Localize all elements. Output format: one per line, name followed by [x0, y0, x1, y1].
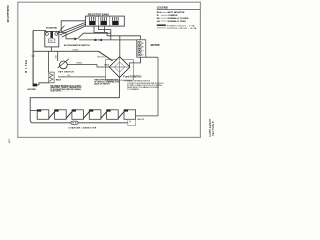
accelerator switch arm 4: [62, 26, 86, 37]
svg-text:RD: RD: [157, 18, 161, 20]
battery B6: [124, 110, 136, 120]
charger connector: [71, 121, 78, 124]
svg-text:CHARGER CONNECTOR: CHARGER CONNECTOR: [68, 126, 96, 129]
svg-text:B 1 TAG: B 1 TAG: [25, 59, 28, 72]
svg-text:1-88: 1-88: [8, 139, 10, 144]
svg-text:MOTOR: MOTOR: [151, 44, 160, 47]
accelerator wiper arrowhead: [74, 37, 77, 40]
accelerator switch arm 3: [60, 24, 86, 35]
svg-text:#16: #16: [67, 75, 70, 77]
wire accelerator to bus: [78, 33, 111, 39]
buzzer: [33, 84, 38, 87]
battery link 5: [118, 111, 125, 119]
svg-text:#18 BLK: #18 BLK: [76, 63, 83, 65]
border frame: [18, 2, 201, 137]
receptacle WD-B box: [49, 72, 54, 83]
svg-text:TO FORWARD.: TO FORWARD.: [127, 88, 140, 91]
wire bus A: [79, 39, 137, 41]
svg-text:MD-3: MD-3: [105, 65, 109, 67]
solenoid aux contact: [48, 39, 55, 43]
motor terminal F1: [138, 49, 141, 52]
svg-text:F2: F2: [142, 54, 144, 56]
svg-text:SOLENOID: SOLENOID: [46, 28, 58, 30]
wire key switch aux to F and R: [58, 76, 106, 78]
svg-text:F and R SWITCH: F and R SWITCH: [123, 76, 141, 78]
resistor R2 terminal: [101, 21, 107, 25]
wire wiper feed: [61, 33, 74, 39]
battery B2: [55, 110, 67, 120]
svg-text:#18: #18: [55, 56, 57, 59]
resistor R1 terminal: [89, 21, 95, 25]
wire motor bottom to diamond: [130, 57, 141, 67]
accelerator switch arm 1: [61, 20, 85, 22]
fuse box below battery: [128, 120, 136, 126]
svg-text:MA-1023: MA-1023: [137, 118, 144, 121]
F and R switch diamond: [109, 57, 130, 78]
wire B+ to solenoid: [33, 31, 47, 33]
svg-text:F1: F1: [142, 51, 144, 53]
svg-text:W: W: [157, 15, 159, 17]
resistor R1 hatches: [90, 17, 96, 21]
resistor bank box: [86, 16, 125, 26]
svg-text:NORMALLY OPEN: NORMALLY OPEN: [168, 20, 187, 23]
resistor R3 terminal: [112, 21, 118, 25]
accelerator switch arm 2: [58, 22, 85, 33]
wire right vertical: [157, 57, 159, 116]
resistor R3 hatches: [113, 17, 119, 21]
svg-text:BATT. NEGATIVE: BATT. NEGATIVE: [168, 11, 185, 14]
svg-text:GR: GR: [157, 21, 161, 23]
battery B4: [89, 110, 101, 120]
svg-text:SECTION B: SECTION B: [211, 121, 215, 136]
legend underline: [157, 8, 200, 10]
wire diamond bottom loop: [30, 77, 128, 122]
wire resistor drop 3: [99, 26, 111, 40]
accelerator switch wiper: [57, 26, 64, 34]
svg-text:(From B+): (From B+): [97, 57, 106, 59]
motor terminal A1: [138, 41, 141, 44]
F and R switch enclosure: [106, 60, 134, 81]
wire resistor drop 2: [104, 26, 106, 32]
svg-text:NORMALLY CLOSED: NORMALLY CLOSED: [168, 17, 189, 20]
solenoid box: [45, 31, 59, 47]
wire solenoid bottom: [51, 47, 53, 51]
wire battery tap: [30, 109, 37, 111]
wire resistor drop 1: [94, 26, 107, 36]
wire long horizontal: [33, 50, 98, 52]
battery link 1: [49, 111, 56, 119]
wire to F and R switch top: [119, 36, 121, 57]
wire thick diagonal from B+: [99, 51, 113, 61]
connector junction: [95, 39, 103, 42]
battery link 3: [83, 111, 90, 119]
key switch circle: [60, 61, 68, 69]
motor terminal A2: [138, 45, 141, 48]
accelerator switch post: [60, 20, 62, 32]
solenoid terminal right: [55, 33, 58, 36]
svg-text:COIL: COIL: [49, 41, 53, 43]
motor terminal F2: [138, 53, 141, 56]
svg-text:COMMON: COMMON: [168, 15, 178, 17]
battery link 4: [101, 111, 108, 119]
wire to receptacle: [48, 51, 50, 72]
battery B3: [72, 110, 84, 120]
svg-text:BACK OF SWITCH.: BACK OF SWITCH.: [94, 83, 110, 86]
battery B1: [37, 110, 49, 120]
svg-text:ACCELERATOR SWITCH: ACCELERATOR SWITCH: [64, 44, 90, 47]
svg-text:BUZZER: BUZZER: [28, 89, 37, 91]
svg-text:SUPPLEMENT: SUPPLEMENT: [208, 118, 212, 137]
resistor R2 hatches: [101, 17, 107, 21]
wire bus B: [107, 36, 141, 39]
solenoid coil: [50, 31, 53, 38]
solenoid terminal left: [46, 33, 49, 36]
legend long row 1: [157, 24, 166, 26]
wire motor to right bus: [146, 56, 158, 58]
svg-text:POWER CIRCUIT - 6 GA.: POWER CIRCUIT - 6 GA.: [167, 24, 196, 27]
svg-text:Outboard 6-96: Outboard 6-96: [6, 5, 9, 23]
svg-text:KEY SWITCH: KEY SWITCH: [58, 72, 74, 74]
motor box: [137, 40, 146, 57]
svg-text:CONTROL CIRCUIT - 18 GA.: CONTROL CIRCUIT - 18 GA.: [167, 27, 198, 30]
wire key switch to diamond: [67, 65, 109, 67]
wire left vertical B+: [32, 31, 34, 85]
legend long row 2: [157, 27, 166, 29]
wire key switch drop: [57, 51, 59, 61]
battery B5: [107, 110, 119, 120]
key switch arm: [58, 59, 69, 68]
battery link 2: [66, 111, 73, 119]
wire receptacle to buzzer: [33, 83, 49, 85]
svg-text:WD-B: WD-B: [56, 79, 62, 81]
wire to battery: [136, 115, 158, 117]
